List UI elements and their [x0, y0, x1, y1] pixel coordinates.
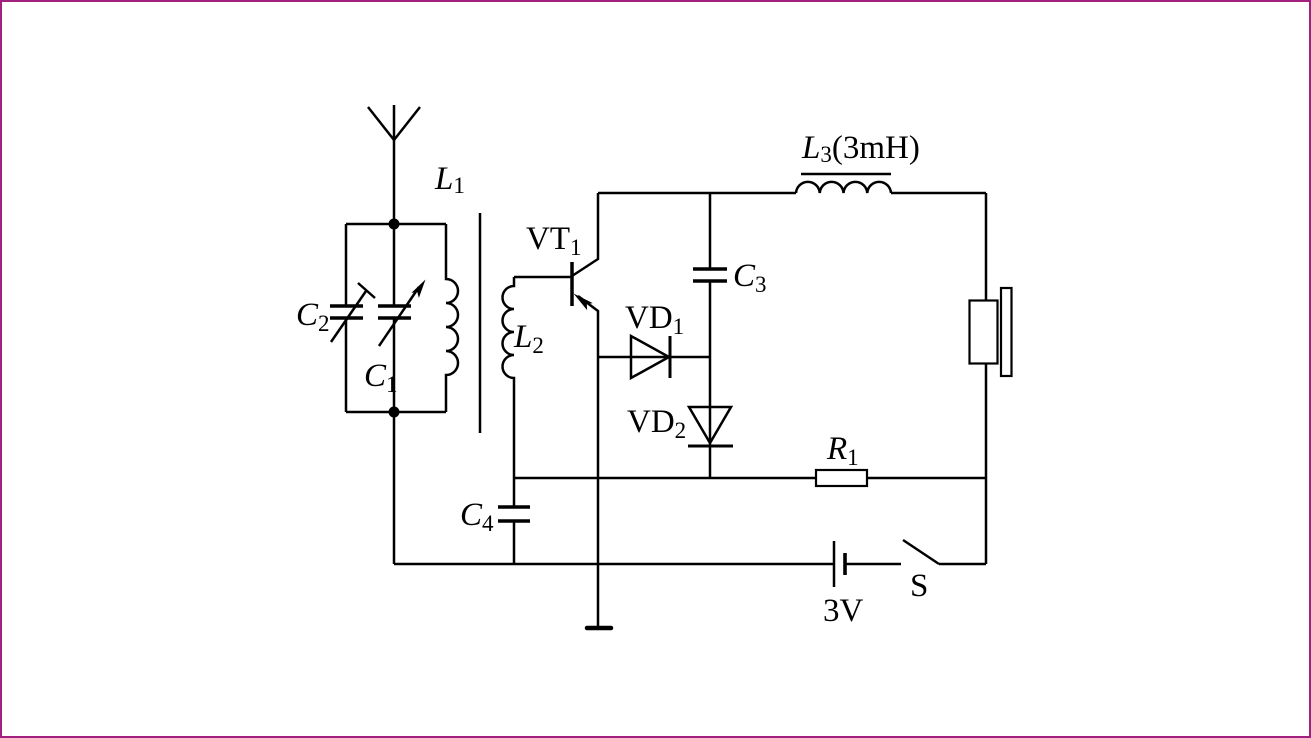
- label L2: [513, 319, 544, 358]
- diode VD2 triangle: [689, 407, 731, 443]
- wire tank left edge: [345, 224, 348, 412]
- capacitor C1 plates: [378, 306, 411, 318]
- svg-text:VD2: VD2: [627, 404, 686, 443]
- svg-text:VT1: VT1: [526, 221, 582, 260]
- svg-text:S: S: [910, 568, 928, 604]
- wire tank top: [346, 223, 446, 226]
- svg-text:3V: 3V: [823, 593, 864, 629]
- label 3V: [823, 593, 864, 629]
- label L1: [434, 161, 465, 198]
- inductor L3 core bar: [801, 173, 891, 176]
- battery long plate: [833, 541, 836, 587]
- label L3 (3mH): [801, 130, 920, 167]
- node bottom junction dot: [389, 407, 400, 418]
- svg-text:C3: C3: [733, 258, 767, 297]
- label C3: [733, 258, 767, 297]
- wire bottom rail left: [394, 563, 834, 566]
- diode VD2 wire through: [709, 407, 712, 446]
- transistor VT1 collector: [572, 193, 598, 276]
- label VT1: [526, 221, 582, 260]
- inductor L2: [503, 277, 515, 564]
- transistor VT1 base bar: [570, 262, 574, 306]
- svg-text:L2: L2: [513, 319, 544, 358]
- wire mid horizontal: [514, 477, 986, 480]
- inductor L1: [446, 224, 458, 412]
- wire left drop: [393, 412, 396, 564]
- wire VD2 bottom: [709, 446, 712, 478]
- wire tank bottom: [346, 411, 446, 414]
- svg-text:C2: C2: [296, 297, 330, 336]
- diode VD1 cathode bar: [669, 336, 672, 378]
- label C2: [296, 297, 330, 336]
- wire C3 branch bottom: [709, 281, 712, 407]
- ground: [587, 626, 611, 631]
- diode VD2 cathode bar: [688, 445, 733, 448]
- capacitor C2 plates: [330, 306, 363, 318]
- capacitor C3 plates: [693, 269, 727, 281]
- label C4: [460, 497, 494, 536]
- transistor VT1 emitter: [574, 294, 599, 629]
- svg-text:L1: L1: [434, 161, 465, 198]
- wire top rail left: [598, 192, 796, 195]
- capacitor C1 arrow: [379, 280, 426, 347]
- svg-text:L3(3mH): L3(3mH): [801, 130, 920, 167]
- wire right vertical top: [985, 193, 988, 300]
- wire base lead: [514, 276, 572, 279]
- label VD1: [625, 300, 684, 339]
- label S: [910, 568, 928, 604]
- wire tank center branch: [393, 224, 396, 412]
- wire bottom rail mid: [845, 563, 901, 566]
- wire top rail right: [891, 192, 986, 195]
- label R1: [826, 431, 859, 470]
- resistor R1: [816, 470, 867, 486]
- speaker body: [970, 301, 998, 364]
- inductor L3: [796, 182, 891, 193]
- transformer core: [479, 213, 482, 433]
- switch S blade: [903, 540, 939, 564]
- wire bottom rail right: [939, 563, 986, 566]
- wire C3 branch top: [709, 193, 712, 269]
- svg-text:C1: C1: [364, 358, 398, 397]
- battery short plate: [843, 553, 847, 575]
- antenna arms: [368, 107, 420, 140]
- label VD2: [627, 404, 686, 443]
- node top junction dot: [389, 219, 400, 230]
- svg-text:R1: R1: [826, 431, 859, 470]
- antenna mast: [393, 105, 396, 224]
- label C1: [364, 358, 398, 397]
- wire right vertical bottom: [985, 363, 988, 564]
- svg-text:C4: C4: [460, 497, 494, 536]
- wire VD1 link: [598, 356, 710, 359]
- speaker diaphragm: [1001, 288, 1012, 376]
- diode VD1 triangle: [631, 336, 669, 378]
- svg-text:VD1: VD1: [625, 300, 684, 339]
- capacitor C4 plates: [498, 507, 530, 521]
- capacitor C2 trimmer arrow: [331, 283, 375, 342]
